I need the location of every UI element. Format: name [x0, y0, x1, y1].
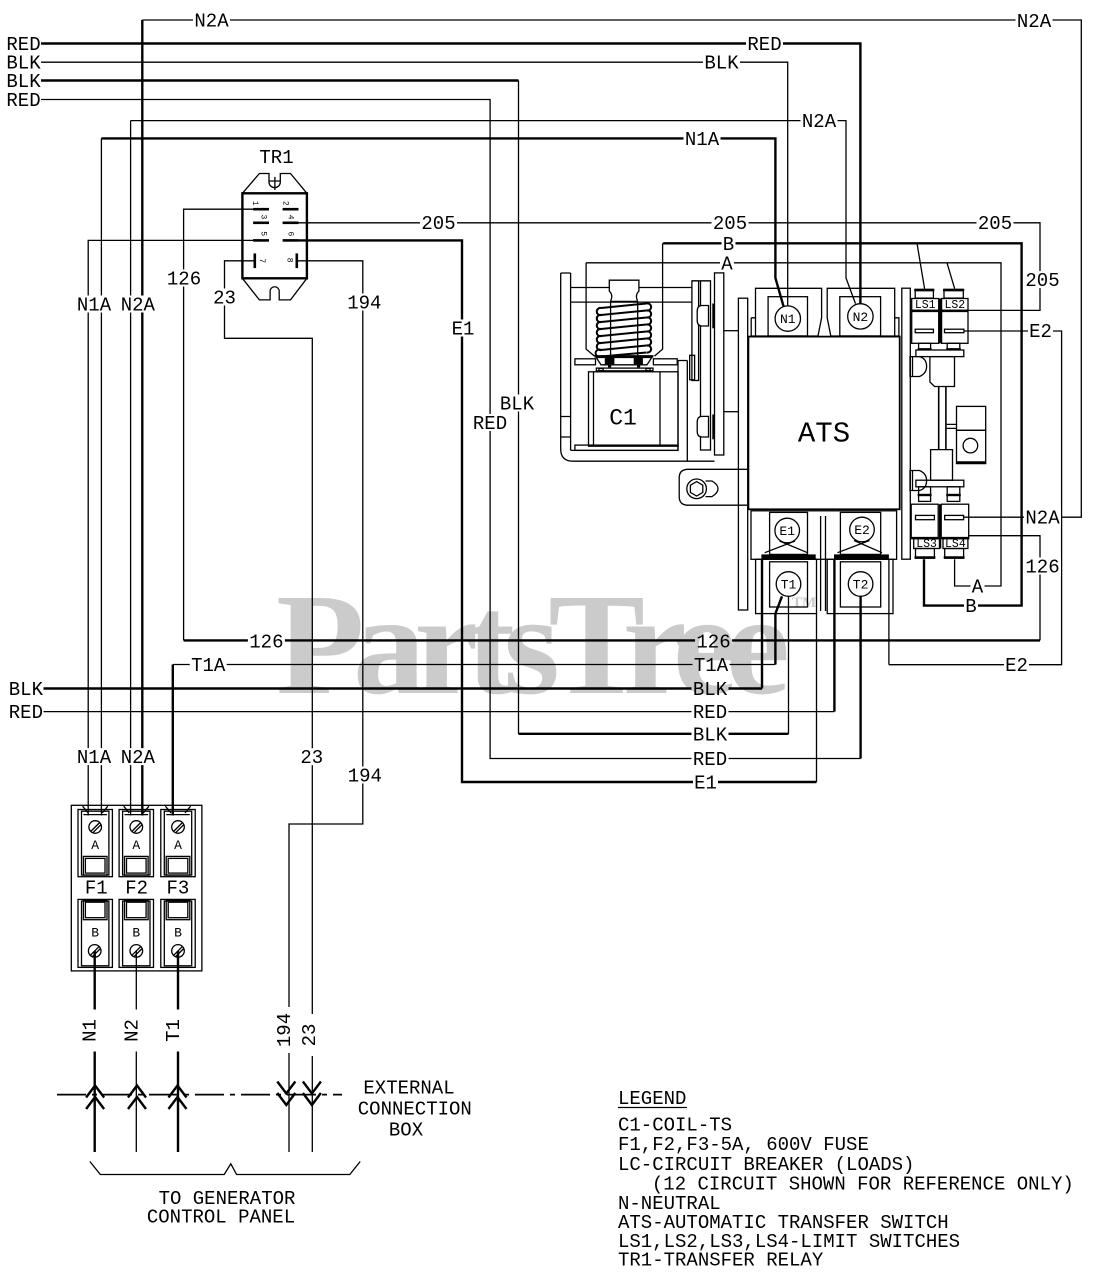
- TR1 octagon bottom outline: [242, 278, 307, 300]
- fuse F1 holder B: [78, 899, 112, 967]
- coil body inner lines: [594, 372, 661, 446]
- wire T1A row y664.5: [173, 664, 776, 666]
- wire fuse F2 output N2: [135, 951, 137, 1152]
- node 194 label lower: [346, 766, 383, 788]
- svg-text:F2: F2: [125, 877, 148, 899]
- wire fuse F3 output T1 (thick): [177, 951, 179, 1152]
- plate right bar (ATS mount): [738, 298, 747, 610]
- svg-text:E2: E2: [854, 523, 870, 538]
- T1 terminal outer box: [756, 559, 817, 613]
- wire N1A row y138.4 (thick) to N1 slant: [101, 138, 783, 306]
- svg-text:205: 205: [713, 213, 747, 235]
- svg-text:126: 126: [1025, 557, 1059, 579]
- pivot arm lower: [910, 471, 927, 491]
- svg-text:RED: RED: [473, 413, 507, 435]
- LS2 foot tab: [947, 343, 960, 350]
- flange bar left: [575, 359, 596, 365]
- svg-text:A: A: [132, 838, 140, 853]
- E1 clamp bar: [761, 554, 815, 559]
- connector arrow 194 (down): [277, 1082, 295, 1106]
- coil top thick plate line: [595, 355, 654, 357]
- wire label BLK row2 inline: [703, 53, 740, 75]
- svg-text:3: 3: [259, 214, 268, 219]
- upper plunger block: [930, 357, 955, 387]
- wire BLK bottom row y733.8 (thick): [519, 733, 789, 735]
- LS3 cap thick edge: [915, 556, 936, 558]
- N block right step: [895, 318, 899, 336]
- E2 terminal box: [840, 512, 880, 554]
- wire label BLK bottom inline: [692, 679, 729, 701]
- LS2 body: [942, 310, 968, 343]
- connector arrow N1 (up): [86, 1086, 104, 1110]
- bolt bracket plate: [679, 469, 747, 505]
- coil C1 assembly: [561, 243, 715, 461]
- E1 terminal box: [770, 512, 808, 554]
- svg-text:RED: RED: [693, 749, 727, 771]
- node E2 label right: [1028, 321, 1053, 343]
- wire T1A riser x775.4 to T1 slant (thick): [775, 596, 782, 664]
- LS4 cap thick edge: [944, 556, 965, 558]
- wire TR1 pin1 to 126 vertical x183.6 down to 126 row: [184, 209, 254, 640]
- E terminal outer block: [751, 511, 897, 560]
- svg-text:BLK: BLK: [9, 679, 44, 701]
- contact strip upper: [712, 304, 714, 329]
- pivot arm upper: [910, 357, 927, 377]
- node 205 label right vertical: [1024, 270, 1061, 292]
- LS2 cap: [944, 289, 963, 298]
- F3 wire funnel entry: [165, 806, 190, 814]
- C1 frame left bar: [561, 273, 571, 450]
- bolt washer circle: [687, 479, 707, 499]
- svg-text:E1: E1: [452, 319, 475, 341]
- node N2A label lower column: [119, 747, 156, 769]
- lower plunger plate: [916, 480, 964, 487]
- svg-text:T1A: T1A: [191, 655, 226, 677]
- T1 terminal inner box: [770, 562, 808, 607]
- LS3 slot: [916, 515, 935, 519]
- node 126 label bottom-right: [695, 632, 732, 654]
- svg-text:B: B: [132, 925, 140, 940]
- node N1A label mid row: [684, 129, 721, 151]
- F3 window B: [166, 900, 190, 920]
- svg-text:F1,F2,F3-5A, 600V FUSE: F1,F2,F3-5A, 600V FUSE: [618, 1134, 869, 1156]
- coil bottom plate: [575, 445, 678, 450]
- wire RED (top row 1, thick) to N2 terminal: [41, 44, 860, 304]
- svg-text:BLK: BLK: [693, 724, 728, 746]
- LS3 body: [911, 504, 938, 538]
- pin 1 bar: [253, 208, 269, 211]
- coil plate feet: [599, 368, 603, 370]
- node E2 label bottom: [1004, 655, 1029, 677]
- N terminal outer block right: [827, 288, 895, 336]
- node 23 label lower: [299, 747, 324, 769]
- svg-text:N1A: N1A: [685, 129, 720, 151]
- node N2A label right: [1024, 508, 1061, 530]
- svg-text:BOX: BOX: [389, 1120, 424, 1142]
- LS1 slot: [915, 329, 933, 333]
- svg-text:CONTROL PANEL: CONTROL PANEL: [147, 1206, 295, 1228]
- coil terminal block right: [634, 358, 643, 365]
- svg-text:205: 205: [1025, 270, 1059, 292]
- svg-text:ATS: ATS: [798, 418, 850, 451]
- wire BLK (top row 2) to N1 terminal: [41, 62, 788, 306]
- F1 screw A: [89, 821, 102, 834]
- svg-text:N2A: N2A: [121, 747, 156, 769]
- fuse F3 holder A: [161, 806, 195, 877]
- LS3 thick edge: [911, 537, 938, 539]
- plunger shaft through spring: [611, 301, 638, 356]
- LS3 foot tab: [919, 487, 931, 502]
- plunger cap: [609, 280, 639, 301]
- LS1 body: [912, 310, 939, 343]
- node N2A label column: [119, 295, 156, 317]
- wire TR1 pin5 left to N1A column x88.2 down to fuse F1: [88, 240, 253, 815]
- connector arrow 23 (down): [303, 1082, 321, 1106]
- wire BLK (top row 3, thick) down via x518.5: [41, 79, 519, 81]
- svg-text:194: 194: [348, 766, 382, 788]
- pin 8 bar: [296, 253, 299, 268]
- LS3/LS4 divider: [939, 504, 941, 548]
- svg-text:4: 4: [286, 215, 295, 220]
- svg-text:T1: T1: [163, 1019, 185, 1042]
- F1 window B: [83, 900, 107, 920]
- node N2A label mid row: [801, 111, 838, 133]
- svg-text:N2: N2: [121, 1019, 143, 1042]
- svg-text:B: B: [91, 925, 99, 940]
- svg-text:C1: C1: [609, 406, 637, 432]
- roller bracket lower: [957, 430, 986, 463]
- wire N2A top loop: from left column across top, down right edge to LS4: [142, 20, 1081, 517]
- E1 terminal circle: [775, 518, 800, 543]
- wire fuse column x142.3 from N2A top row (thick): [141, 20, 143, 816]
- svg-text:TM: TM: [792, 595, 816, 611]
- N2 terminal box: [840, 297, 881, 336]
- svg-text:N1: N1: [780, 312, 796, 327]
- F2 window B: [125, 900, 149, 920]
- wire N2A row y120.6 to N2 slant: [131, 121, 856, 304]
- LS4 label box: [943, 539, 968, 549]
- node A label bottom: [971, 577, 985, 599]
- wire TR1 pin8 to 194 line with jog: [289, 261, 363, 1152]
- contact bump upper: [697, 306, 708, 327]
- svg-text:N2A: N2A: [802, 111, 837, 133]
- fuse F2 holder B: [119, 899, 153, 967]
- svg-text:LEGEND: LEGEND: [618, 1088, 686, 1110]
- wire fuse F1 output N1 (thick): [93, 951, 95, 1152]
- F3 window A: [166, 856, 190, 875]
- N block left step: [751, 318, 755, 336]
- LS1/LS2 divider: [939, 299, 941, 344]
- svg-text:N1: N1: [80, 1019, 102, 1042]
- F2 screw A: [130, 821, 143, 834]
- plate middle bar: [701, 281, 711, 450]
- LS4 slot: [945, 515, 964, 519]
- wire tag N2 rotated: [121, 1010, 145, 1052]
- wire fuse column x101.4 from N1A row: [100, 138, 102, 815]
- T1 terminal circle: [776, 572, 801, 597]
- node E1 label bottom: [693, 773, 718, 795]
- wire vertical x518.5 BLK: [518, 81, 520, 734]
- wire vertical x788.5 up to T1 bottom: [788, 596, 790, 734]
- svg-text:E1: E1: [694, 773, 717, 795]
- wire tag 194 rotated: [274, 1007, 298, 1053]
- svg-text:N1A: N1A: [77, 295, 112, 317]
- svg-text:1: 1: [250, 201, 259, 206]
- wire BLK row y688.5 (thick): [44, 687, 763, 689]
- F1 screw B: [88, 945, 101, 958]
- node A label top: [720, 253, 734, 275]
- transfer relay TR1: [242, 174, 307, 300]
- wire E1 riser x816.5: [816, 614, 818, 782]
- wire E2 stub x888.9 up to E2 block: [888, 559, 890, 664]
- svg-text:N2A: N2A: [1025, 508, 1060, 530]
- svg-text:23: 23: [300, 747, 323, 769]
- pin 3 bar: [253, 222, 269, 225]
- svg-text:8: 8: [285, 258, 294, 263]
- flange bar right: [653, 359, 677, 365]
- svg-text:A: A: [91, 838, 99, 853]
- E2 wire cross: [838, 541, 883, 553]
- node B label top: [722, 234, 736, 256]
- moving contact plate assembly: [679, 273, 748, 610]
- svg-text:205: 205: [978, 213, 1012, 235]
- svg-text:N2A: N2A: [194, 11, 229, 33]
- pin 5 bar: [253, 239, 269, 242]
- wire B loop (thick): from C1 plunger across, down right, to LS3 cap: [663, 243, 1022, 605]
- LS4 foot tab: [947, 487, 960, 502]
- node N2A label top-left: [193, 11, 230, 33]
- roller circle: [963, 438, 978, 453]
- wire slant B to LS1 cap: [917, 243, 925, 288]
- wire T1A drop to fuse F3 (thick): [172, 665, 174, 816]
- svg-text:E1: E1: [779, 524, 795, 539]
- svg-text:PartsTree: PartsTree: [276, 565, 790, 725]
- fuse block F1 F2 F3: [71, 805, 202, 971]
- LS3 label box: [914, 539, 940, 549]
- node B label bottom: [964, 596, 978, 618]
- legend: [618, 1088, 1074, 1272]
- svg-text:BLK: BLK: [704, 53, 739, 75]
- F2 screw B: [130, 945, 143, 958]
- LS1 label box: [912, 299, 939, 311]
- E1 wire cross: [765, 541, 808, 553]
- dash-dot boundary line: [57, 1094, 342, 1096]
- rod tie to roller bracket: [947, 424, 957, 428]
- T2 terminal circle: [848, 572, 873, 597]
- TR1 key mark: [270, 177, 281, 190]
- N1 terminal circle: [775, 306, 800, 331]
- svg-text:F3: F3: [166, 877, 189, 899]
- pin 6 bar: [283, 239, 299, 242]
- T2 terminal outer box: [827, 559, 893, 613]
- svg-text:5: 5: [259, 231, 268, 236]
- LS2 body thick top: [942, 310, 968, 312]
- TR1 body rectangle: [242, 193, 307, 278]
- brace to generator control panel: [90, 1162, 360, 1175]
- wire riser x762 to E1 block (thick): [761, 559, 763, 688]
- node N1A label lower column: [76, 747, 113, 769]
- F3 screw A: [172, 821, 185, 834]
- link line upper to contact plate: [571, 287, 693, 289]
- ATS main box: [748, 337, 899, 510]
- node 126 label right: [1024, 557, 1061, 579]
- N2 terminal circle: [848, 304, 873, 329]
- bolt hex head: [690, 482, 702, 496]
- coil terminal block left: [605, 358, 615, 365]
- fuse block outer rect: [71, 805, 202, 971]
- svg-text:A: A: [174, 838, 182, 853]
- pin 7 bar: [254, 253, 257, 268]
- T2 terminal inner box: [840, 562, 880, 607]
- funnel right edge / B wire drop: [655, 243, 663, 356]
- pin 2 bar: [283, 208, 299, 211]
- connector arrow N2 (up): [128, 1086, 146, 1110]
- connector arrow T1 (up): [169, 1086, 187, 1110]
- wire 205: TR1 pin4 across to right, down to LS2 top: [299, 223, 1041, 311]
- wire tag N1 rotated: [80, 1010, 104, 1052]
- svg-text:RED: RED: [6, 90, 40, 112]
- divider strip between terminal stacks: [821, 516, 826, 611]
- svg-text:CONNECTION: CONNECTION: [358, 1099, 472, 1121]
- wire label RED row1 inline: [746, 34, 783, 56]
- svg-text:F1: F1: [85, 877, 108, 899]
- svg-text:23: 23: [213, 288, 236, 310]
- funnel left edge: [586, 263, 594, 356]
- svg-text:T2: T2: [853, 578, 869, 593]
- wire RED row y711.6: [44, 711, 835, 713]
- lower plunger block: [931, 450, 953, 481]
- N1 terminal box: [768, 297, 807, 336]
- plate tie lower: [724, 411, 739, 413]
- LS4 thick edge: [941, 537, 969, 539]
- LS1 cap: [915, 289, 933, 298]
- wire TR1 pin7 to 23 line: [225, 261, 313, 1152]
- watermark PartsTree: [276, 565, 816, 725]
- svg-text:23: 23: [299, 1024, 321, 1047]
- wire A loop: from C1 coil across, down, to LS4 cap: [586, 263, 1001, 586]
- plate tie upper: [724, 330, 739, 332]
- node T1A label right: [693, 655, 730, 677]
- wire riser x834.4 to E2 block (thick): [833, 559, 835, 711]
- wire label RED on vertical x490: [472, 413, 509, 435]
- svg-text:E2: E2: [1005, 655, 1028, 677]
- svg-text:RED: RED: [9, 702, 43, 724]
- svg-text:2: 2: [281, 201, 290, 206]
- plate cap: [692, 280, 711, 282]
- LS4 cap: [945, 549, 964, 559]
- node 205 label a: [420, 213, 457, 235]
- E2 terminal circle: [850, 517, 875, 542]
- wire 126 row y640.4 (thick): [184, 639, 1040, 641]
- svg-text:194: 194: [274, 1013, 296, 1047]
- wire label RED bottom inline: [692, 702, 729, 724]
- wire tag T1 rotated: [163, 1010, 187, 1052]
- coil body box: [589, 372, 679, 446]
- E2 clamp bar: [834, 554, 889, 559]
- F1 window A: [83, 856, 107, 875]
- roller bracket thick base: [957, 461, 986, 463]
- svg-text:6: 6: [286, 231, 295, 236]
- LS3 cap: [916, 549, 935, 559]
- plate left bar pair: [692, 281, 699, 381]
- spring coil turns: [596, 303, 651, 356]
- wire 126 riser x1040 to LS4: [969, 536, 1040, 641]
- LS back plate: [902, 288, 911, 559]
- fuse F3 holder B: [161, 899, 195, 967]
- contact bump lower: [697, 416, 708, 437]
- svg-text:TR1: TR1: [259, 147, 293, 169]
- LS1 body thick top: [912, 310, 939, 312]
- svg-text:E2: E2: [1029, 321, 1052, 343]
- svg-text:194: 194: [347, 293, 381, 315]
- node E1 label on vertical: [451, 319, 476, 341]
- pin 4 bar: [283, 222, 299, 225]
- wire label RED row y758.5: [692, 749, 729, 771]
- wire RED (top row 4) down via x490.1: [41, 100, 861, 759]
- svg-text:7: 7: [257, 258, 266, 263]
- svg-text:B: B: [965, 596, 976, 618]
- svg-text:B: B: [174, 925, 182, 940]
- svg-text:N2A: N2A: [121, 295, 156, 317]
- node 23 label upper: [212, 288, 237, 310]
- external connection box: [57, 1082, 360, 1175]
- C1 frame right bar: [678, 361, 687, 462]
- wire fuse column x130.6 from N2A row: [130, 121, 132, 816]
- bolt tab: [706, 481, 719, 497]
- coil plate lower: [596, 368, 653, 371]
- F3 screw B: [172, 945, 185, 958]
- coil terminal tray: [596, 358, 651, 365]
- upper plunger plate: [916, 350, 964, 357]
- coil terminal stubs: [608, 365, 611, 368]
- wire vertical x860.6 up to T2 bottom (thick): [859, 596, 861, 758]
- node T1A label left: [190, 655, 227, 677]
- fuse F1 holder A: [78, 806, 112, 877]
- svg-text:RED: RED: [747, 34, 781, 56]
- automatic transfer switch ATS: [748, 288, 899, 613]
- wire TR1 pin6 to E1 vertical, E1 bottom row (thick): [299, 240, 817, 782]
- C1 frame bottom bar with rounded corner: [561, 449, 715, 461]
- node 126 label bottom-left: [248, 632, 285, 654]
- TR1 octagon top outline: [242, 174, 307, 194]
- N terminal outer block left: [756, 288, 822, 336]
- node 126 label on vertical: [166, 269, 203, 291]
- node 205 label b: [712, 213, 749, 235]
- actuator rod: [939, 387, 946, 450]
- svg-text:205: 205: [421, 213, 455, 235]
- svg-text:A: A: [721, 253, 733, 275]
- LS1 cap thick edge: [914, 289, 934, 291]
- LS2 cap thick edge: [943, 289, 964, 291]
- svg-text:EXTERNAL: EXTERNAL: [363, 1078, 454, 1100]
- wire label BLK on vertical x517: [499, 394, 536, 416]
- contact strip lower: [712, 415, 714, 440]
- svg-text:N2A: N2A: [1017, 11, 1052, 33]
- F1 wire funnel entry: [83, 806, 108, 814]
- LS1 foot tab: [919, 343, 931, 350]
- link line lower to contact plate: [571, 301, 693, 303]
- svg-text:TR1-TRANSFER RELAY: TR1-TRANSFER RELAY: [618, 1250, 824, 1272]
- fuse F2 holder A: [119, 806, 153, 877]
- node 205 label c: [977, 213, 1014, 235]
- wire slant A to LS2 cap: [947, 263, 955, 289]
- svg-text:N1A: N1A: [77, 747, 112, 769]
- plate main bar: [715, 273, 724, 455]
- F2 window A: [125, 856, 149, 875]
- LS2 label box: [942, 299, 968, 311]
- svg-text:LC-CIRCUIT BREAKER (LOADS): LC-CIRCUIT BREAKER (LOADS): [618, 1154, 914, 1176]
- LS2 slot: [945, 329, 964, 333]
